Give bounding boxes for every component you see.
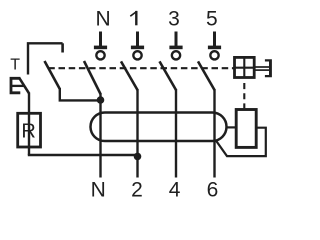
terminal N top lead: [99, 32, 102, 47]
terminal N fixed contact circle: [96, 51, 104, 59]
test push-button contact blade: [19, 78, 29, 94]
mechanism box cross horizontal: [235, 67, 255, 69]
svg-text:2: 2: [131, 178, 143, 201]
wire: test circuit bottom horizontal to pole 2: [28, 154, 138, 156]
terminal 5 fixed contact circle: [210, 51, 218, 59]
mechanism box cross vertical: [243, 57, 245, 77]
trip coil K1: [236, 110, 256, 148]
svg-text:4: 4: [169, 178, 181, 201]
test push-button T actuator: [11, 78, 20, 93]
wire: aux contact to pole N junction: [60, 88, 101, 100]
pole 1 switch blade: [121, 61, 138, 90]
terminal 1 clamp bar: [131, 46, 144, 50]
terminal 3 top lead: [175, 32, 178, 47]
terminal 5 clamp bar: [208, 46, 221, 50]
svg-text:N: N: [91, 178, 106, 201]
svg-text:R: R: [21, 120, 35, 142]
mechanical linkage dashed line: [48, 67, 234, 69]
pole N switch blade: [84, 61, 101, 94]
svg-text:T: T: [10, 56, 20, 73]
pole 5 switch blade: [198, 61, 215, 90]
junction dot on pole 2 conductor: [134, 153, 142, 161]
svg-text:6: 6: [207, 178, 219, 201]
wire: toroid secondary left lead to coil: [227, 126, 237, 128]
svg-text:3: 3: [168, 7, 180, 30]
terminal 3 fixed contact circle: [172, 51, 180, 59]
terminal N clamp bar: [94, 46, 107, 50]
pole N conductor: [99, 93, 101, 178]
current transformer toroid: [91, 113, 227, 142]
label 1 (top): [135, 11, 137, 25]
terminal 1 fixed contact circle: [133, 51, 141, 59]
svg-text:N: N: [96, 7, 111, 30]
operating mechanism box U1: [235, 57, 255, 77]
auxiliary test contact blade: [45, 61, 60, 89]
pole 1 conductor: [136, 89, 138, 178]
manual handle rails: [255, 66, 269, 68]
svg-text:5: 5: [206, 7, 218, 30]
resistor R box: [18, 113, 41, 147]
pole 3 conductor: [175, 89, 177, 178]
fixed contact stub of auxiliary test contact: [61, 43, 64, 52]
pole 3 switch blade: [160, 61, 177, 90]
pole 5 conductor: [213, 89, 215, 178]
terminal 5 top lead: [213, 32, 216, 47]
wire: test button top lead up and over to aux contact: [28, 43, 63, 74]
junction dot on pole N conductor: [97, 96, 105, 104]
wire: through resistor to test wire corner: [28, 113, 30, 155]
wire: toroid secondary return wrap to coil right side: [216, 128, 266, 156]
manual handle end bracket: [265, 59, 272, 77]
wire: push-button to resistor R: [28, 93, 30, 114]
dashed link: mechanism to trip coil: [243, 79, 245, 108]
terminal 1 top lead: [136, 32, 139, 47]
terminal 3 clamp bar: [169, 46, 182, 50]
